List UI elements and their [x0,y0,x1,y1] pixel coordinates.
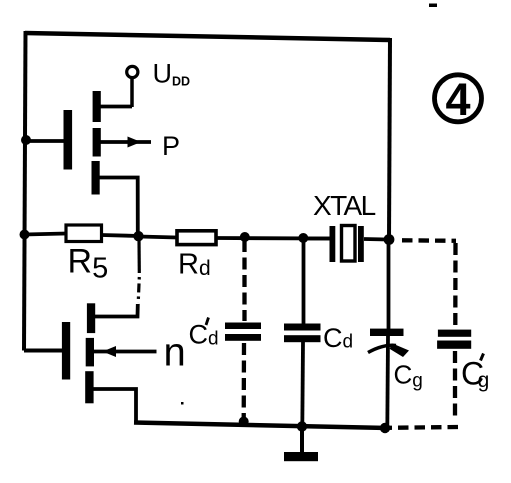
node A: R5 / Rd / Q1 source / Q2 drain junction [133,231,143,241]
wire: left rail [24,31,26,351]
capacitor C'g (dashed branch) [389,240,471,427]
wire: Q2 gate stub from left rail [24,349,63,353]
wire: Q1 substrate arrow (points right) [101,137,152,148]
wire: bottom rail [134,423,389,429]
capacitor Cg (trimmer) [368,241,409,428]
speck (scan artifact top right) [429,4,437,8]
node: Q1 gate tap on left rail [21,135,31,145]
wire: top rail [25,33,390,40]
node: left rail / middle wire junction [20,230,30,240]
wire: Q2 drain wire [94,304,138,317]
wire: Q2 substrate arrow (points left into channel) [94,346,157,357]
wire: Q2 source down to bottom rail [94,389,137,423]
figure number 4 (circled) [435,74,482,125]
capacitor Cd [284,239,321,427]
wire: right rail (top wire down to XTAL node) [389,38,390,240]
speck (scan artifact near Q2 source) [181,402,184,405]
node: C'd bottom tap [239,417,249,427]
terminal UDD [127,66,138,107]
resistor Rd [177,231,216,245]
resistor R5 [66,225,102,242]
wire: middle net from left rail to R5 [24,234,66,235]
svg-text:XTAL: XTAL [313,190,376,221]
transistor Q2 n-channel MOSFET "n" [62,303,95,403]
node: C'd top tap [240,232,250,242]
wire: R5 to node A [102,235,141,236]
transistor Q1 p-channel MOSFET "P" [64,91,101,195]
wire: node A to Rd [139,237,177,238]
wire: Q1 source down to node A [100,178,138,237]
svg-text:P: P [162,131,180,161]
wire: node A down to Q2 drain (solid then dash-dot) [138,238,139,303]
svg-text:n: n [164,331,186,375]
node: XTAL right / right rail / Cg junction [384,234,395,245]
node: Cg bottom tap [380,423,390,433]
wire: Rd to XTAL left plate (through C'd and Cd taps) [216,236,331,240]
label C'd apostrophe [206,318,209,326]
capacitor C'd (dashed branch) [225,240,261,420]
wire: Q1 gate stub from left rail [26,139,64,143]
crystal XTAL [305,226,389,263]
wire: Q1 drain to UDD [100,105,132,109]
node: Cd top tap [298,233,308,243]
node: Cd bottom / ground junction [297,421,307,431]
label C'g apostrophe [481,354,484,361]
ground [284,428,318,461]
svg-text:4: 4 [446,74,471,125]
